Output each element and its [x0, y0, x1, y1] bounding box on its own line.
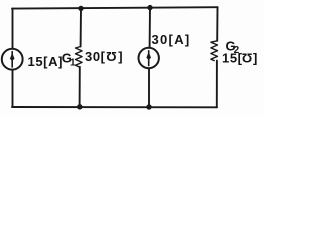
svg-text:15[A]: 15[A] — [28, 54, 64, 69]
svg-text:30[: 30[ — [85, 49, 106, 64]
svg-text:]: ] — [118, 49, 123, 64]
svg-text:30[A]: 30[A] — [152, 32, 191, 47]
svg-text:Ω: Ω — [241, 50, 252, 65]
svg-text:Ω: Ω — [106, 49, 117, 64]
svg-text:1: 1 — [70, 58, 76, 69]
svg-text:15[: 15[ — [222, 51, 243, 66]
svg-text:]: ] — [253, 51, 258, 66]
